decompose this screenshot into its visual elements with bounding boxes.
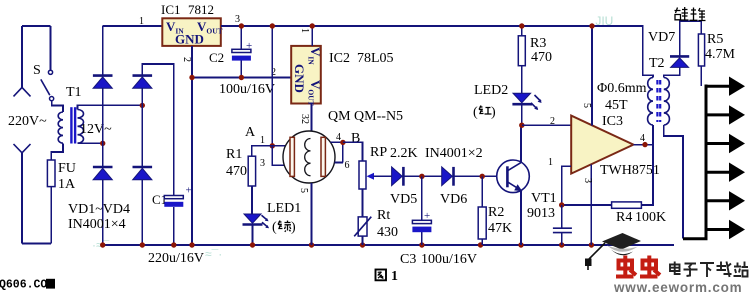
wire: QM pin4 to node B [331, 141, 343, 143]
diode VD5 [392, 167, 403, 186]
wire: T1 primary bottom to fuse [51, 143, 63, 243]
node: C2 top on rail [239, 23, 244, 28]
wire: R4 left to feedback node [562, 204, 612, 206]
wire: RP bottom to Rt [362, 189, 364, 217]
svg-text:LED1: LED1 [267, 201, 301, 216]
svg-text:): ) [291, 220, 296, 235]
wire: T2 secondary bottom return [664, 125, 683, 239]
svg-text:C2: C2 [209, 50, 224, 65]
op-amp IC1 regulator 7812 box [162, 18, 221, 46]
T1 secondary winding [78, 110, 84, 144]
potentiometer RP [359, 161, 366, 189]
wire: IC3 pin5 from rail [591, 26, 593, 126]
regulator IC2 78L05 box [291, 46, 321, 104]
thermistor Rt [358, 217, 367, 236]
wire: T1 secondary top to bridge right column [78, 105, 143, 109]
svg-text:B: B [351, 131, 360, 146]
resistor R4 [612, 202, 642, 208]
svg-text:100u/16V: 100u/16V [219, 82, 275, 97]
svg-text:VD1~VD4: VD1~VD4 [68, 202, 130, 217]
svg-text:1: 1 [260, 135, 265, 146]
node: VT1 emitter ground [518, 242, 523, 247]
svg-text:1: 1 [139, 16, 144, 27]
svg-text:1A: 1A [58, 177, 76, 192]
svg-text:FU: FU [58, 161, 76, 176]
wire: +12V top rail from IC1 pin3 to T2 [221, 26, 653, 78]
wire: T2 secondary top to VD7 [664, 68, 680, 78]
wire: VD7 cathode to R5 [680, 21, 702, 56]
wire: LED1 to ground rail [252, 225, 254, 246]
svg-text:470: 470 [226, 164, 247, 179]
node: C3 ground [419, 242, 424, 247]
wire: IC3 pin3 to ground [590, 165, 592, 246]
svg-text:(: ( [272, 220, 277, 235]
wire: bridge left top to IC1 pin1 [103, 25, 163, 27]
diode VD4 (right bottom) [133, 166, 153, 169]
electrode arrow 2 [706, 113, 730, 116]
svg-text:32: 32 [299, 114, 310, 124]
node: VD4 ground [140, 242, 145, 247]
wire: IC2 pin1 from rail [311, 26, 313, 46]
svg-text:GND: GND [175, 32, 204, 47]
svg-text:3: 3 [260, 158, 265, 169]
op-amp IC3 TWH8751 [571, 116, 633, 174]
wire: VT1 collector up to LED2 node [520, 125, 522, 162]
node: A feed on rail [270, 23, 275, 28]
gas sensor QM QM--N5 [283, 131, 335, 183]
svg-text:+: + [186, 185, 192, 197]
node: R2 tap [480, 174, 485, 179]
wire: plug right down to switch [50, 26, 52, 70]
svg-text:R3: R3 [530, 36, 546, 51]
svg-text:4: 4 [640, 133, 645, 144]
electrode arrow 4 [706, 171, 730, 174]
node: secondary bottom junction [100, 141, 105, 146]
svg-text:R2: R2 [488, 205, 504, 220]
wire: VT1 emitter to ground [520, 191, 522, 245]
wire: node A to QM pin3 [272, 146, 284, 165]
node: C2 bottom junction [239, 75, 244, 80]
svg-text:T1: T1 [66, 85, 82, 100]
svg-text:78L05: 78L05 [357, 51, 394, 66]
node: Rt ground [360, 242, 365, 247]
fuse FU 1A [47, 160, 55, 187]
diode VD3 (left bottom) [93, 166, 113, 169]
T1 primary winding [58, 112, 63, 143]
wire: QM pin5 to ground [311, 183, 313, 245]
diode VD1 (left top) [93, 74, 113, 77]
node: QM pin5 ground [309, 242, 314, 247]
svg-text:4: 4 [336, 132, 341, 143]
wire: R1 to LED1 [251, 186, 253, 214]
diode VD2 (right top) [133, 74, 153, 77]
node: pin2 gnd junction [189, 75, 194, 80]
wire: T1 secondary bottom to bridge left column [78, 142, 103, 144]
svg-text:VT1: VT1 [531, 191, 557, 206]
svg-text:5: 5 [581, 103, 592, 108]
node: feedback node [559, 202, 564, 207]
node: feedback cap ground [559, 242, 564, 247]
svg-text:R4: R4 [616, 210, 632, 225]
svg-text:IC3: IC3 [602, 114, 623, 129]
node: LED2 / VT1 / IC3 pin2 [519, 123, 524, 128]
wire: node A to QM pin1 [272, 145, 285, 147]
capacitor feedback [561, 205, 563, 245]
figure label (CJK) [376, 269, 399, 284]
svg-text:470: 470 [531, 50, 552, 65]
svg-text:VD5: VD5 [390, 192, 417, 207]
svg-text:S: S [33, 63, 41, 78]
resistor R1 [248, 156, 255, 186]
wire: R5 bottom [700, 66, 702, 86]
svg-text:IC2: IC2 [329, 51, 350, 66]
svg-text:3: 3 [235, 14, 240, 25]
node: C3 tap [419, 174, 424, 179]
LED LED1 [244, 214, 261, 223]
wire: node B to RP top [343, 142, 363, 161]
svg-text:GND: GND [292, 64, 307, 93]
wire: switch to T1 primary [52, 101, 63, 112]
wire: bridge left column [102, 26, 104, 245]
svg-text:6: 6 [345, 160, 350, 171]
AC plug lower prong [14, 144, 31, 153]
svg-text:100K: 100K [635, 210, 666, 225]
watermark bug bug (CJK red) [616, 256, 660, 277]
electrode arrow 1 [706, 85, 730, 88]
node: LED1 ground [250, 242, 255, 247]
svg-text:7812: 7812 [188, 2, 214, 17]
svg-text:Q606.CO: Q606.CO [0, 279, 47, 292]
svg-text:): ) [491, 105, 496, 120]
watermark site name (CJK) [670, 262, 748, 278]
capacitor C3 [421, 176, 423, 245]
electrode arrow 5 [706, 199, 730, 202]
wire: ground link IC1 pin2 to IC2 GND [192, 77, 291, 79]
ground rail [103, 244, 674, 246]
svg-text:1: 1 [548, 157, 553, 168]
transistor VT1 9013 [497, 160, 530, 193]
node: pin4 junction [642, 142, 647, 147]
svg-text:+: + [246, 40, 252, 52]
svg-text:TWH8751: TWH8751 [600, 163, 660, 178]
wire: plug bottom to fuse [22, 243, 51, 245]
T1 core [70, 107, 72, 143]
resistor R2 [481, 176, 483, 245]
svg-text:RP: RP [370, 145, 387, 160]
wire: IC3 pin1 feedback [562, 166, 572, 205]
watermark graduation cap [602, 233, 641, 250]
svg-text:1: 1 [391, 269, 398, 284]
svg-text:3: 3 [582, 178, 593, 183]
svg-text:5: 5 [298, 188, 309, 193]
wire: node to IC3 pin2 [522, 124, 571, 126]
svg-text:430: 430 [377, 225, 398, 240]
svg-text:www.eeworm.com: www.eeworm.com [613, 280, 742, 292]
svg-text:R1: R1 [226, 147, 242, 162]
wire: VD5 to VD6 [404, 175, 442, 177]
svg-text:VD7: VD7 [648, 30, 675, 45]
node: C1 ground [171, 242, 176, 247]
T2 primary winding [648, 78, 653, 126]
wire: IC3 pin4 output [633, 144, 653, 146]
svg-text:4.7M: 4.7M [705, 47, 736, 62]
node B [340, 140, 345, 145]
wire: T2 primary bottom down to R4 [641, 125, 653, 205]
svg-text:R5: R5 [707, 32, 723, 47]
node: secondary top junction [140, 103, 145, 108]
electrode arrow 6 [706, 228, 730, 231]
capacitor C2 [240, 26, 242, 78]
svg-text:IC1: IC1 [161, 2, 181, 17]
AC plug upper prong [21, 26, 23, 87]
wire: QM pin6 link [334, 142, 343, 162]
svg-text:220V~: 220V~ [8, 114, 47, 129]
T2 secondary winding [664, 78, 670, 126]
resistor R3 [521, 26, 523, 93]
svg-text:47K: 47K [488, 221, 512, 236]
svg-text:+: + [424, 210, 430, 222]
svg-text:IN4001×2: IN4001×2 [425, 146, 483, 161]
diode VD6 [442, 167, 453, 186]
T2 core [657, 80, 660, 122]
svg-text:VD6: VD6 [440, 192, 467, 207]
svg-text:LED2: LED2 [474, 83, 508, 98]
wire: IC1 pin2 ground drop [191, 46, 193, 245]
svg-text:45T: 45T [605, 98, 628, 113]
diode VD7 [670, 55, 689, 58]
node: IC1 pin2 ground [189, 242, 194, 247]
svg-text:1: 1 [299, 28, 310, 33]
svg-text:Φ0.6mm: Φ0.6mm [597, 81, 647, 96]
wire: Rt to ground [362, 236, 364, 245]
svg-text:Rt: Rt [377, 208, 390, 223]
node A [270, 143, 275, 148]
electrode arrow 3 [706, 142, 730, 145]
svg-text:A: A [245, 125, 256, 140]
svg-text:2: 2 [181, 57, 192, 62]
svg-text:2.2K: 2.2K [390, 146, 418, 161]
node: IC2 pin1 on rail [310, 23, 315, 28]
discharge electrode bus [683, 85, 706, 239]
switch S [48, 70, 52, 74]
svg-text:≈¯·: ≈¯· [205, 247, 222, 261]
node: rail left corner [100, 242, 105, 247]
svg-text:T2: T2 [649, 56, 665, 71]
node: IC3 pin3 ground [589, 242, 594, 247]
wire: VD6 to VT1 base [454, 175, 497, 177]
svg-text:220u/16V: 220u/16V [148, 251, 204, 266]
svg-text:(: ( [473, 105, 478, 120]
wire: LED2 cathode to node [521, 104, 523, 125]
svg-text:9013: 9013 [527, 206, 555, 221]
svg-text:100u/16V: 100u/16V [421, 252, 477, 267]
svg-text:C3: C3 [400, 252, 416, 267]
LED LED2 [513, 93, 531, 103]
svg-text:IN4001×4: IN4001×4 [68, 217, 126, 232]
svg-text:2: 2 [550, 116, 555, 127]
wire: node A feed from rail [271, 26, 273, 146]
label silicon stack (CJK) [675, 7, 706, 21]
wire: node A to R1 [252, 146, 273, 156]
node: R2 ground [478, 242, 483, 247]
wire: bridge right column [142, 64, 174, 245]
wire: IC2 out to QM top [311, 104, 313, 132]
svg-text:12V~: 12V~ [80, 122, 112, 137]
wire: plug top horizontal [22, 25, 51, 27]
resistor R5 [698, 34, 704, 66]
svg-text:QM QM--N5: QM QM--N5 [328, 109, 403, 124]
